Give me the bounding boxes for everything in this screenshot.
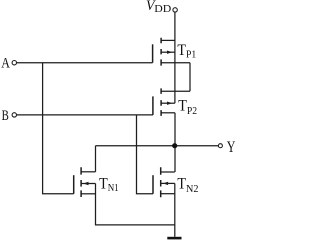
channel contact bars TN2 <box>160 167 162 197</box>
channel contact bars TP2 <box>160 88 162 116</box>
node VDD terminal circle <box>173 8 177 12</box>
transistor Q TP1 (PMOS) <box>153 38 190 66</box>
bulk lead TP2 with arrow <box>161 102 175 104</box>
channel contact bars TP1 <box>160 38 162 66</box>
channel contact bars TN1 <box>80 167 82 197</box>
label TN1 <box>99 175 119 194</box>
wire B branch down to TN2 gate <box>137 115 154 194</box>
source lead TN1 (bottom) <box>81 193 95 195</box>
ground symbol <box>167 237 181 240</box>
wire series link TP1 drain to TP2 source <box>189 63 191 91</box>
svg-text:T: T <box>99 175 108 192</box>
svg-text:T: T <box>177 176 186 193</box>
drain lead TN1 (top) <box>81 171 95 173</box>
svg-text:T: T <box>178 98 187 115</box>
svg-text:N2: N2 <box>186 183 199 195</box>
node B terminal circle <box>12 113 16 117</box>
transistor Q TN2 (NMOS) <box>153 167 175 197</box>
node A terminal circle <box>12 61 16 65</box>
label TP1 <box>177 42 196 61</box>
label TP2 <box>178 98 197 117</box>
label TN2 <box>177 176 198 195</box>
wire TP2 drain down through output node to TN2 drain <box>174 113 176 172</box>
wire TN1 drain up to output line <box>95 146 97 172</box>
transistor Q TN1 (NMOS) <box>74 167 96 197</box>
drain lead TP2 (bottom) <box>161 112 175 114</box>
wire input A to TP1 gate <box>17 62 153 64</box>
bulk lead TN1 with arrow <box>81 183 95 185</box>
label A <box>1 54 10 71</box>
node output junction dot <box>172 143 177 148</box>
drain lead TP1 (bottom) to series link <box>161 62 190 64</box>
wire A branch down to TN1 gate <box>43 63 74 194</box>
svg-text:N1: N1 <box>108 182 119 194</box>
label VDD <box>146 0 171 15</box>
source lead TN2 (bottom) <box>161 193 175 195</box>
svg-text:B: B <box>2 106 9 123</box>
svg-text:P2: P2 <box>187 105 197 117</box>
gate bar TP1 <box>152 44 154 62</box>
wire input B to TP2 gate <box>17 114 153 116</box>
svg-text:T: T <box>177 42 186 59</box>
gate bar TP2 <box>152 96 154 115</box>
source lead TP1 (top) <box>161 39 175 41</box>
label Y <box>227 138 236 156</box>
gate bar TN2 <box>152 175 154 194</box>
wire output Y line <box>96 145 219 147</box>
svg-text:P1: P1 <box>186 49 196 61</box>
svg-text:Y: Y <box>227 138 236 156</box>
node Y terminal circle <box>218 144 222 148</box>
svg-text:DD: DD <box>154 3 171 15</box>
transistor Q TP2 (PMOS) <box>153 88 190 116</box>
bulk lead TN2 with arrow <box>161 182 175 184</box>
label B <box>2 106 9 123</box>
wire VDD rail down to TP2 bulk <box>174 12 176 103</box>
wire TN1 bulk/source down and right to ground rail <box>96 184 175 225</box>
svg-text:A: A <box>1 54 10 71</box>
drain lead TN2 (top) <box>161 171 175 173</box>
bulk lead TP1 with arrow <box>161 51 175 53</box>
source lead TP2 (top) <box>161 90 190 92</box>
wire TN2 bulk/source down to ground <box>174 183 176 236</box>
gate bar TN1 <box>73 175 75 194</box>
